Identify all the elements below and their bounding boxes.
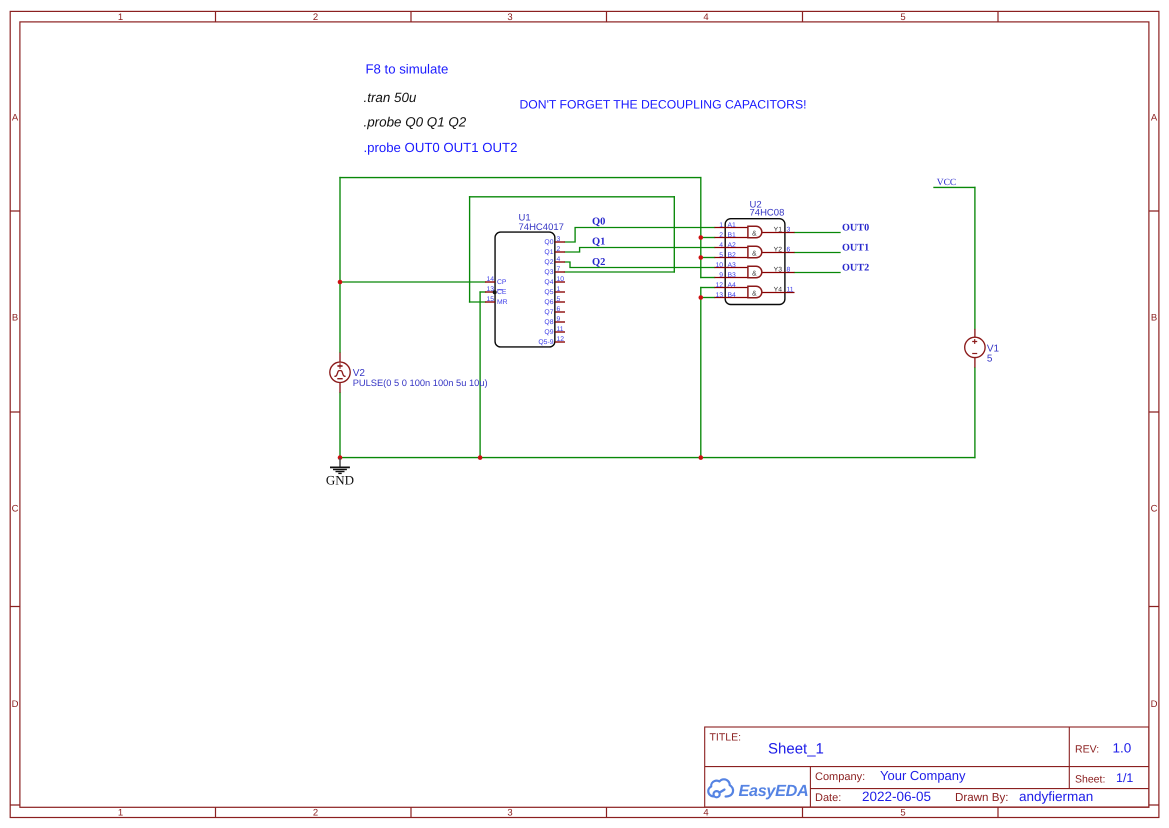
- svg-text:12: 12: [715, 282, 723, 289]
- svg-text:A: A: [12, 113, 19, 124]
- wire net OUT0: [795, 232, 841, 234]
- U1 pin Q9 pin 11: [555, 331, 565, 333]
- svg-text:4: 4: [719, 242, 723, 249]
- svg-text:5: 5: [719, 252, 723, 259]
- svg-text:1: 1: [118, 808, 123, 819]
- U2 pin B3 pin 9: [715, 277, 748, 279]
- title block outline: [705, 727, 1149, 807]
- U2 pin A3 pin 10: [715, 267, 748, 269]
- svg-text:Y3: Y3: [774, 267, 783, 274]
- svg-text:A3: A3: [728, 262, 737, 269]
- svg-text:1: 1: [118, 12, 123, 23]
- title block vertical divider rev/sheet: [1068, 727, 1070, 789]
- svg-text:9: 9: [557, 316, 561, 323]
- svg-text:Q2: Q2: [592, 257, 605, 268]
- svg-text:Q4: Q4: [544, 279, 553, 286]
- svg-text:3: 3: [507, 12, 512, 23]
- svg-text:Q8: Q8: [544, 319, 553, 326]
- junction V2 minus at ground rail: [338, 455, 343, 460]
- U1 pin numbers left: [486, 276, 494, 303]
- svg-text:3: 3: [507, 808, 512, 819]
- U2 output pin lines: [762, 233, 795, 293]
- U2 input pin numbers: [715, 222, 723, 299]
- wire net Q1: [565, 248, 715, 253]
- wire VCC flag stub: [934, 186, 975, 188]
- svg-text:&: &: [752, 290, 757, 297]
- svg-text:B3: B3: [728, 272, 737, 279]
- wire VCC down to V1 plus: [974, 187, 976, 329]
- svg-text:11: 11: [557, 326, 564, 333]
- title block divider under title row: [705, 766, 1149, 768]
- svg-text:11: 11: [787, 287, 794, 294]
- U2 pin A1 pin 1: [715, 227, 748, 229]
- svg-text:4: 4: [703, 12, 708, 23]
- junction V2 to CP: [338, 280, 343, 285]
- svg-text:5: 5: [900, 12, 905, 23]
- svg-text:Q6: Q6: [544, 299, 553, 306]
- svg-text:PULSE(0 5 0 100n 100n 5u 10u): PULSE(0 5 0 100n 100n 5u 10u): [353, 378, 488, 388]
- wire CE stub: [480, 291, 485, 293]
- U1 pin CE pin 13: [485, 291, 495, 293]
- U2 pin Y1 pin 3: [762, 232, 795, 234]
- wire net Q2: [565, 262, 715, 268]
- svg-text:B1: B1: [728, 232, 737, 239]
- ground symbol: [330, 458, 350, 473]
- svg-text:Q1: Q1: [544, 249, 553, 256]
- svg-text:Q5-9: Q5-9: [538, 339, 553, 346]
- svg-text:&: &: [752, 250, 757, 257]
- wire B4 stub: [701, 297, 715, 299]
- row tick marks right: [1149, 211, 1159, 805]
- svg-text:Q5: Q5: [544, 289, 553, 296]
- wire feedback top rail Q3 to MR: [470, 196, 675, 198]
- svg-text:&: &: [752, 230, 757, 237]
- wire V2 minus to ground rail: [339, 393, 341, 458]
- svg-text:B: B: [12, 313, 18, 324]
- U1 pin names left: [497, 279, 508, 306]
- U2 pin B2 pin 5: [715, 257, 748, 259]
- svg-text:5: 5: [557, 296, 561, 303]
- svg-text:2: 2: [313, 12, 318, 23]
- U1 pin Q5 pin 1: [555, 291, 565, 293]
- U2 pin Y2 pin 6: [762, 252, 795, 254]
- svg-text:OUT2: OUT2: [842, 263, 869, 274]
- svg-text:8: 8: [787, 267, 791, 274]
- wire B1 stub: [701, 237, 715, 239]
- AND gate ampersands: [752, 230, 757, 297]
- IC U2 74HC08 body: [725, 219, 785, 305]
- wire A4 B4 down to ground rail: [700, 288, 702, 458]
- svg-text:OUT0: OUT0: [842, 223, 869, 234]
- U2 pin Y4 pin 11: [762, 292, 795, 294]
- wire CLK vertical from V2 plus: [339, 178, 341, 353]
- svg-text:2: 2: [719, 232, 723, 239]
- wire ground rail: [340, 457, 975, 459]
- U1 pin numbers right: [557, 236, 565, 343]
- svg-text:Q1: Q1: [592, 237, 605, 248]
- svg-text:Company:: Company:: [815, 771, 865, 783]
- svg-text:.probe OUT0 OUT1 OUT2: .probe OUT0 OUT1 OUT2: [364, 140, 518, 155]
- svg-text:A4: A4: [728, 282, 737, 289]
- svg-text:Sheet:: Sheet:: [1075, 774, 1105, 786]
- svg-text:Date:: Date:: [815, 792, 841, 804]
- U1 pin Q4 pin 10: [555, 281, 565, 283]
- U1 pin Q2 pin 4: [555, 261, 565, 263]
- svg-text:A1: A1: [728, 222, 737, 229]
- U1 pin Q7 pin 6: [555, 311, 565, 313]
- AND gate 2: [748, 246, 762, 257]
- EasyEDA logo cloud: [708, 779, 733, 797]
- U2 input pin lines: [715, 228, 748, 298]
- AND gate 1: [748, 226, 762, 238]
- junction CLK at B2: [699, 255, 704, 260]
- svg-text:B: B: [1151, 313, 1157, 324]
- voltage source V1: [965, 329, 985, 368]
- svg-text:EasyEDA: EasyEDA: [739, 782, 809, 800]
- svg-text:A: A: [1151, 113, 1158, 124]
- wire net OUT2: [795, 272, 841, 274]
- wire MR stub: [470, 301, 486, 303]
- svg-text:4: 4: [557, 256, 561, 263]
- wire CLK top rail: [340, 177, 701, 179]
- U2 pin A4 pin 12: [715, 287, 748, 289]
- U2 pin B1 pin 2: [715, 237, 748, 239]
- svg-text:Your Company: Your Company: [880, 768, 966, 783]
- svg-text:9: 9: [719, 272, 723, 279]
- U1 pin Q1 pin 2: [555, 251, 565, 253]
- svg-text:10: 10: [557, 276, 565, 283]
- svg-text:andyfierman: andyfierman: [1019, 789, 1093, 804]
- wire Q3 horizontal: [565, 271, 675, 273]
- junction B4 column at ground rail: [699, 455, 704, 460]
- svg-text:.tran 50u: .tran 50u: [364, 90, 417, 105]
- AND gate 3: [748, 266, 762, 278]
- svg-text:C: C: [1151, 504, 1158, 515]
- title block divider under company row: [810, 788, 1149, 790]
- svg-text:5: 5: [987, 354, 993, 365]
- svg-text:Q0: Q0: [544, 239, 553, 246]
- V1 plus minus: [972, 339, 977, 353]
- U1 pin names right: [538, 239, 553, 346]
- svg-text:1: 1: [557, 286, 561, 293]
- U1 pin Q5-9 pin 12: [555, 341, 565, 343]
- svg-text:Q2: Q2: [544, 259, 553, 266]
- U1 pin CP pin 14: [485, 281, 495, 283]
- svg-text:4: 4: [703, 808, 708, 819]
- svg-text:2: 2: [313, 808, 318, 819]
- svg-text:2: 2: [557, 246, 561, 253]
- svg-text:74HC08: 74HC08: [750, 208, 785, 219]
- IC U1 74HC4017 body: [495, 232, 555, 347]
- U1 pin Q6 pin 5: [555, 301, 565, 303]
- svg-text:15: 15: [486, 296, 494, 303]
- U2 pin A2 pin 4: [715, 247, 748, 249]
- svg-text:10: 10: [715, 262, 723, 269]
- svg-text:1: 1: [719, 222, 723, 229]
- wire A4 stub: [701, 287, 715, 289]
- svg-text:Sheet_1: Sheet_1: [768, 741, 824, 758]
- svg-text:B4: B4: [728, 292, 737, 299]
- svg-text:D: D: [1151, 699, 1158, 710]
- U1 pin lines left CP CE MR: [485, 282, 495, 302]
- svg-text:2022-06-05: 2022-06-05: [862, 789, 931, 804]
- U1 CE inversion dot: [493, 290, 497, 294]
- svg-text:6: 6: [787, 247, 791, 254]
- svg-text:12: 12: [557, 336, 565, 343]
- svg-text:7: 7: [557, 266, 561, 273]
- svg-text:F8 to simulate: F8 to simulate: [366, 61, 449, 76]
- wire CE down to ground rail: [479, 292, 481, 458]
- column tick marks bottom: [216, 807, 999, 817]
- svg-text:74HC4017: 74HC4017: [519, 222, 564, 233]
- svg-text:.probe Q0 Q1 Q2: .probe Q0 Q1 Q2: [364, 115, 467, 130]
- svg-text:Y2: Y2: [774, 247, 783, 254]
- U2 pin B4 pin 13: [715, 297, 748, 299]
- svg-text:1/1: 1/1: [1116, 771, 1133, 785]
- svg-text:14: 14: [486, 276, 494, 283]
- row tick marks left: [10, 211, 20, 805]
- U1 pin Q3 pin 7: [555, 271, 565, 273]
- svg-text:OUT1: OUT1: [842, 243, 869, 254]
- V2 plus minus and pulse glyph: [334, 363, 345, 379]
- svg-text:Q3: Q3: [544, 269, 553, 276]
- svg-text:REV:: REV:: [1075, 744, 1099, 756]
- U1 pin Q8 pin 9: [555, 321, 565, 323]
- wire net OUT1: [795, 252, 841, 254]
- wire B3 stub: [701, 277, 715, 279]
- U1 pin Q0 pin 3: [555, 241, 565, 243]
- U2 output pin names: [774, 227, 783, 294]
- svg-text:5: 5: [900, 808, 905, 819]
- svg-text:13: 13: [486, 286, 494, 293]
- title block vertical divider logo cell: [809, 767, 811, 807]
- U2 input pin names: [728, 222, 737, 299]
- wire feedback left vertical to MR: [469, 197, 471, 302]
- column tick marks top: [216, 11, 999, 22]
- svg-text:Q9: Q9: [544, 329, 553, 336]
- wire CLK vertical to B inputs: [700, 178, 702, 278]
- junction GND at B4: [699, 295, 704, 300]
- junction CE at ground rail: [478, 455, 483, 460]
- wire B2 stub: [701, 257, 715, 259]
- U2 output pin numbers: [787, 227, 794, 294]
- svg-text:MR: MR: [497, 299, 508, 306]
- svg-text:B2: B2: [728, 252, 737, 259]
- svg-text:D: D: [12, 699, 19, 710]
- svg-text:A2: A2: [728, 242, 737, 249]
- svg-text:DON'T FORGET THE DECOUPLING CA: DON'T FORGET THE DECOUPLING CAPACITORS!: [520, 97, 807, 111]
- voltage source V2 pulse: [330, 353, 350, 393]
- U1 pin lines right Q0-Q9 Q5-9: [555, 242, 565, 342]
- svg-text:&: &: [752, 270, 757, 277]
- svg-text:3: 3: [557, 236, 561, 243]
- svg-text:Drawn By:: Drawn By:: [955, 791, 1008, 804]
- svg-text:CP: CP: [497, 279, 507, 286]
- svg-text:C: C: [12, 504, 19, 515]
- svg-text:Y1: Y1: [774, 227, 783, 234]
- svg-text:Y4: Y4: [774, 287, 783, 294]
- wire V1 minus to ground rail: [974, 368, 976, 458]
- svg-text:13: 13: [715, 292, 723, 299]
- svg-text:Q7: Q7: [544, 309, 553, 316]
- svg-text:1.0: 1.0: [1113, 741, 1132, 756]
- wire feedback right vertical from Q3: [673, 197, 675, 272]
- wire net Q0: [565, 228, 715, 243]
- wire CP from V2 node: [340, 281, 486, 283]
- svg-text:Q0: Q0: [592, 216, 605, 227]
- svg-text:TITLE:: TITLE:: [710, 731, 742, 743]
- svg-text:VCC: VCC: [937, 178, 957, 188]
- AND gate 4: [748, 286, 762, 298]
- U1 pin MR pin 15: [485, 301, 495, 303]
- U2 pin Y3 pin 8: [762, 272, 795, 274]
- svg-text:3: 3: [787, 227, 791, 234]
- junction CLK at B1: [699, 235, 704, 240]
- svg-text:6: 6: [557, 306, 561, 313]
- svg-text:GND: GND: [326, 473, 354, 488]
